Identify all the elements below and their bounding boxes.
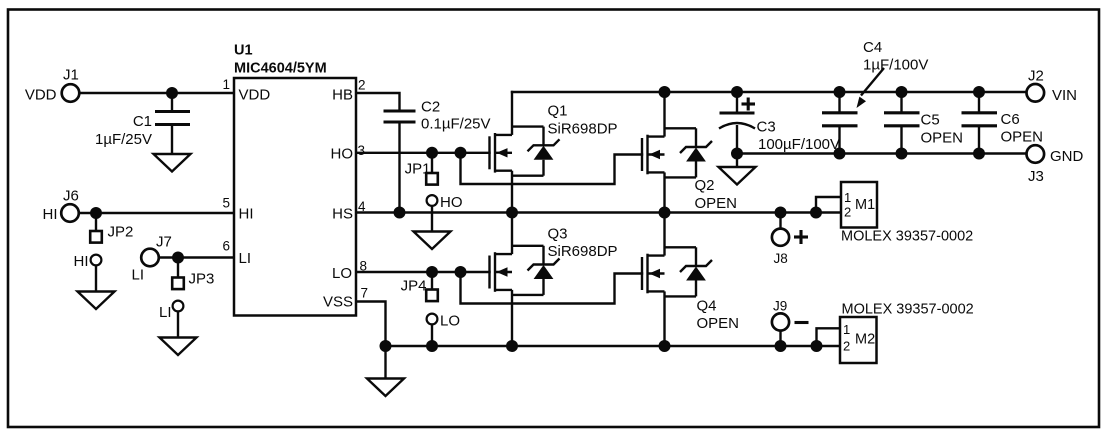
svg-text:OPEN: OPEN bbox=[697, 315, 740, 332]
svg-text:Q4: Q4 bbox=[697, 298, 717, 315]
capacitor C5 OPEN bbox=[884, 86, 963, 160]
svg-text:VIN: VIN bbox=[1052, 87, 1077, 104]
svg-text:HS: HS bbox=[332, 206, 353, 223]
capacitor C4 1uF/100V bbox=[822, 39, 928, 160]
svg-text:M1: M1 bbox=[855, 197, 875, 213]
svg-text:HB: HB bbox=[332, 87, 353, 104]
wire GND rail bbox=[737, 152, 1027, 154]
svg-text:LI: LI bbox=[131, 267, 144, 284]
jumper JP3 bbox=[172, 258, 214, 290]
svg-text:2: 2 bbox=[843, 339, 850, 354]
svg-text:5: 5 bbox=[222, 196, 230, 211]
svg-text:J3: J3 bbox=[1028, 168, 1044, 185]
jumper JP4 bbox=[401, 272, 438, 301]
svg-text:Q1: Q1 bbox=[548, 103, 568, 120]
svg-text:HI: HI bbox=[43, 206, 58, 223]
wire Q3 source to Q4 gate bbox=[461, 272, 644, 304]
wire J6 to U1 pin 5 (HI net) bbox=[79, 212, 234, 214]
svg-text:2: 2 bbox=[844, 205, 851, 220]
transistor Q1 SiR698DP bbox=[490, 91, 618, 213]
svg-text:MIC4604/5YM: MIC4604/5YM bbox=[234, 61, 327, 77]
node LO/Q4-link junction bbox=[455, 266, 467, 278]
node M1 pin1 / HS junction bbox=[810, 207, 822, 219]
ground below LI test point bbox=[160, 338, 197, 356]
svg-text:1: 1 bbox=[844, 190, 851, 205]
svg-text:GND: GND bbox=[1050, 148, 1084, 165]
svg-text:MOLEX 39357-0002: MOLEX 39357-0002 bbox=[842, 302, 974, 318]
svg-text:J9: J9 bbox=[773, 299, 787, 314]
wire LO pin 8 to Q3 gate bbox=[356, 271, 491, 273]
node LO/JP4 junction bbox=[426, 266, 438, 278]
svg-text:SiR698DP: SiR698DP bbox=[548, 121, 618, 138]
svg-text:LI: LI bbox=[159, 304, 172, 321]
pin 1 VDD bbox=[222, 77, 270, 104]
test point LI bbox=[159, 301, 183, 338]
node Q4 source / VSS rail junction bbox=[659, 340, 671, 352]
svg-text:HO: HO bbox=[331, 146, 354, 163]
arrow from C4 label to capacitor bbox=[857, 68, 885, 108]
capacitor C6 OPEN bbox=[962, 86, 1044, 160]
node HO/JP1 junction bbox=[426, 147, 438, 159]
node J8 / HS junction bbox=[775, 207, 787, 219]
test point HI bbox=[74, 253, 102, 292]
svg-text:1µF/100V: 1µF/100V bbox=[863, 57, 928, 74]
svg-text:M2: M2 bbox=[855, 332, 875, 348]
svg-text:J6: J6 bbox=[63, 188, 79, 205]
wire HO pin 3 to Q1 gate bbox=[356, 152, 491, 154]
svg-text:OPEN: OPEN bbox=[1001, 129, 1044, 146]
node Q3 source / VSS rail junction bbox=[506, 340, 518, 352]
test point LO bbox=[427, 313, 460, 347]
wire HS to M1 pin 1 bbox=[816, 197, 841, 213]
ground below HO test point bbox=[414, 232, 451, 250]
node M2 pin1 / VSS rail junction bbox=[811, 340, 823, 352]
wire VIN top rail bbox=[511, 91, 1027, 93]
svg-text:OPEN: OPEN bbox=[921, 130, 964, 147]
svg-text:Q3: Q3 bbox=[548, 226, 568, 243]
pin 6 LI bbox=[222, 239, 251, 268]
node J9 / VSS rail junction bbox=[775, 340, 787, 352]
transistor Q4 OPEN bbox=[642, 213, 739, 347]
svg-text:VSS: VSS bbox=[323, 294, 353, 311]
connector J7 bbox=[131, 234, 171, 284]
svg-text:C1: C1 bbox=[133, 113, 152, 130]
svg-text:1: 1 bbox=[222, 77, 230, 92]
wire VSS bottom rail bbox=[386, 345, 841, 347]
svg-text:C4: C4 bbox=[863, 39, 882, 56]
connector M1 MOLEX 39357-0002 bbox=[841, 182, 973, 245]
connector J6 bbox=[43, 188, 79, 224]
connector J1 bbox=[25, 67, 79, 104]
node VSS junction bbox=[380, 340, 392, 352]
wire HS pin 4 switch-node rail bbox=[356, 211, 841, 213]
wire VSS pin 7 to ground rail bbox=[356, 302, 386, 347]
connector M2 MOLEX 39357-0002 bbox=[840, 302, 974, 364]
node VDD/C1 junction bbox=[166, 87, 178, 99]
wire VSS rail to M2 pin 1 bbox=[817, 328, 841, 346]
svg-text:2: 2 bbox=[358, 78, 366, 93]
svg-text:LI: LI bbox=[239, 250, 252, 267]
svg-text:OPEN: OPEN bbox=[695, 195, 738, 212]
test point HO bbox=[427, 194, 463, 232]
pin 8 LO bbox=[332, 259, 367, 283]
transistor Q3 SiR698DP bbox=[490, 213, 618, 347]
node HI/JP2 junction bbox=[90, 207, 102, 219]
svg-text:HI: HI bbox=[74, 253, 89, 270]
svg-text:1: 1 bbox=[843, 322, 850, 337]
svg-text:C2: C2 bbox=[421, 99, 440, 116]
op-amp U1 MIC4604/5YM driver box bbox=[234, 43, 356, 316]
wire Q1 source to Q2 gate bbox=[461, 153, 644, 184]
connector J9 (-) bbox=[772, 299, 809, 347]
connector J8 (+) bbox=[772, 213, 808, 267]
pin 4 HS bbox=[332, 199, 366, 223]
svg-text:J8: J8 bbox=[774, 251, 788, 266]
node LO test point / VSS rail junction bbox=[426, 340, 438, 352]
svg-text:VDD: VDD bbox=[239, 87, 271, 104]
svg-text:JP2: JP2 bbox=[108, 224, 134, 241]
svg-text:U1: U1 bbox=[234, 43, 253, 59]
wire J7 to U1 pin 6 (LI net) bbox=[159, 256, 234, 258]
capacitor C2 bbox=[384, 99, 491, 213]
svg-text:MOLEX 39357-0002: MOLEX 39357-0002 bbox=[841, 229, 973, 245]
pin 2 HB bbox=[332, 78, 365, 104]
wire J1 to U1 pin 1 (VDD net) bbox=[79, 92, 234, 94]
svg-text:HI: HI bbox=[239, 206, 254, 223]
svg-text:VDD: VDD bbox=[25, 87, 57, 104]
svg-text:JP4: JP4 bbox=[401, 278, 427, 295]
capacitor C1 bbox=[95, 93, 190, 154]
node LI/JP3 junction bbox=[172, 252, 184, 264]
node Q1 source / HS junction bbox=[506, 207, 518, 219]
pin 5 HI bbox=[222, 196, 253, 223]
wire HB pin 2 to C2 bbox=[356, 93, 400, 111]
node Q2 source / HS junction bbox=[659, 207, 671, 219]
node Q2 drain / VIN rail junction bbox=[659, 86, 671, 98]
svg-text:7: 7 bbox=[361, 286, 369, 301]
svg-text:J1: J1 bbox=[63, 67, 79, 84]
svg-text:SiR698DP: SiR698DP bbox=[548, 243, 618, 260]
node C2/HS junction bbox=[394, 207, 406, 219]
capacitor C3 100uF/100V bbox=[719, 86, 840, 160]
jumper JP1 bbox=[405, 153, 438, 185]
svg-text:J2: J2 bbox=[1028, 68, 1044, 85]
svg-text:0.1µF/25V: 0.1µF/25V bbox=[421, 116, 491, 133]
svg-text:100µF/100V: 100µF/100V bbox=[758, 136, 840, 153]
connector J3 GND bbox=[1027, 145, 1084, 185]
svg-text:Q2: Q2 bbox=[695, 177, 715, 194]
ground below VSS bbox=[367, 346, 404, 396]
ground below C3 bbox=[719, 154, 756, 185]
svg-text:C3: C3 bbox=[757, 119, 776, 136]
node HO/Q2-link junction bbox=[455, 147, 467, 159]
connector J2 VIN bbox=[1027, 68, 1078, 105]
ground below C1 bbox=[154, 154, 191, 172]
svg-text:HO: HO bbox=[440, 194, 463, 211]
pin 7 VSS bbox=[323, 286, 368, 311]
svg-text:LO: LO bbox=[440, 313, 460, 330]
pin 3 HO bbox=[331, 143, 366, 163]
svg-text:JP3: JP3 bbox=[189, 271, 215, 288]
jumper JP2 bbox=[90, 213, 133, 243]
svg-text:LO: LO bbox=[332, 265, 352, 282]
svg-text:3: 3 bbox=[358, 143, 366, 158]
svg-text:JP1: JP1 bbox=[405, 161, 431, 178]
svg-text:C5: C5 bbox=[921, 112, 940, 129]
svg-text:6: 6 bbox=[222, 239, 230, 254]
svg-text:1µF/25V: 1µF/25V bbox=[95, 131, 152, 148]
transistor Q2 OPEN bbox=[642, 92, 737, 213]
svg-text:J7: J7 bbox=[156, 234, 172, 251]
ground below HI test point bbox=[78, 292, 115, 310]
svg-text:C6: C6 bbox=[1001, 111, 1020, 128]
